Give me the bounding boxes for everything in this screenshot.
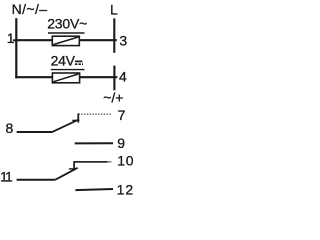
svg-text:10: 10 <box>117 152 134 168</box>
underline 24V <box>51 69 85 71</box>
wire left bus <box>15 18 17 78</box>
pin 11 wire <box>17 179 56 181</box>
contact K1 blade <box>53 119 79 131</box>
pin 12 wire <box>75 189 113 190</box>
pin 8 wire <box>17 131 53 133</box>
pin 4 lead vertical <box>113 66 115 91</box>
svg-text:N/~/–: N/~/– <box>12 1 48 17</box>
pin 10 fixed contact drop <box>73 161 75 170</box>
svg-text:24V: 24V <box>51 52 76 68</box>
svg-text:4: 4 <box>119 69 127 85</box>
wire row2 left <box>15 76 52 78</box>
svg-text:230V~: 230V~ <box>47 16 87 32</box>
svg-text:~/+: ~/+ <box>103 90 123 106</box>
svg-text:3: 3 <box>119 33 127 49</box>
contact K2 blade <box>56 168 78 180</box>
underline 230V~ <box>48 32 85 34</box>
svg-text:L: L <box>110 2 118 18</box>
coil A1 230V box <box>52 36 79 45</box>
contact K2 tick <box>69 168 76 170</box>
pin 10 lead faint end <box>108 161 112 163</box>
pin 10 lead <box>74 161 108 163</box>
svg-text:8: 8 <box>6 120 14 136</box>
dc symbol <box>75 60 83 62</box>
contact K1 tick <box>72 119 79 121</box>
svg-text:1: 1 <box>7 30 15 46</box>
wire row2 right <box>79 76 117 78</box>
pin 9 wire <box>75 142 113 144</box>
pin 3 lead vertical <box>113 18 115 52</box>
pin 1 tick <box>13 39 16 41</box>
pin 7 lead dotted <box>79 113 112 115</box>
svg-text:7: 7 <box>118 107 126 123</box>
pin 7 fixed contact drop <box>77 113 79 122</box>
coil A2 24V box <box>52 73 79 83</box>
wire row1 right <box>79 39 116 41</box>
svg-text:12: 12 <box>117 182 135 198</box>
svg-text:9: 9 <box>117 135 125 151</box>
wire row1 left <box>15 39 52 41</box>
